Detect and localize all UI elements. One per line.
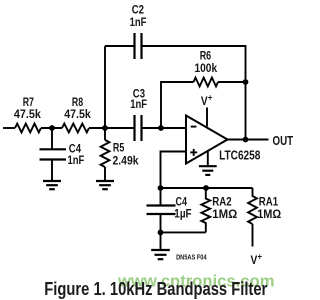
svg-text:C4: C4 [69, 144, 82, 156]
resistor RA2 [201, 188, 210, 232]
ground under C4 [43, 180, 61, 182]
svg-text:R8: R8 [72, 97, 84, 109]
svg-text:47.5k: 47.5k [64, 109, 91, 121]
wire node1 down to C4 [51, 128, 53, 149]
wire bias to C4 top [160, 188, 162, 206]
capacitor C4 1uF [147, 204, 176, 206]
node output junction [243, 137, 249, 143]
svg-text:47.5k: 47.5k [14, 109, 42, 121]
node bias dot left [158, 185, 164, 191]
wire R8 to C3 [89, 127, 134, 129]
wire C4 bottom [160, 214, 162, 232]
svg-text:RA1: RA1 [259, 197, 279, 209]
svg-text:1MΩ: 1MΩ [212, 209, 237, 221]
wire down to ground [160, 232, 162, 249]
wire R7 to R8 [41, 127, 62, 129]
svg-text:1nF: 1nF [130, 17, 147, 29]
op-amp plus sign [190, 151, 197, 153]
wire non-inverting input to bias rail [161, 152, 187, 189]
wire C3 to op-amp inverting input [142, 127, 187, 129]
svg-text:Figure 1. 10kHz Bandpass Filte: Figure 1. 10kHz Bandpass Filter [44, 278, 267, 299]
node junction R6-output [243, 79, 249, 85]
ground under op-amp [207, 151, 209, 165]
svg-text:OUT: OUT [273, 133, 294, 148]
node junction dot 3 feedback tap [158, 125, 164, 131]
wire node2 down to R5 [104, 128, 106, 140]
svg-text:R7: R7 [23, 97, 34, 109]
resistor R7 [15, 124, 41, 133]
resistor R5 [101, 140, 110, 167]
svg-text:1MΩ: 1MΩ [257, 209, 281, 221]
node junction dot 2 [102, 125, 108, 131]
svg-text:R5: R5 [113, 142, 125, 154]
svg-text:C2: C2 [132, 5, 144, 17]
capacitor C2 [133, 33, 135, 59]
op-amp minus sign [191, 126, 197, 128]
node bias dot RA2 [203, 185, 209, 191]
svg-text:100k: 100k [195, 63, 218, 75]
svg-text:+: + [258, 252, 263, 262]
node junction dot 1 [49, 125, 55, 131]
wire op-amp output [228, 139, 269, 141]
svg-text:+: + [208, 92, 213, 102]
wire node2 up to C2 [104, 46, 106, 128]
op-amp U1 LTC6258 [186, 116, 228, 164]
capacitor C3 [133, 115, 135, 141]
resistor RA1 [248, 188, 257, 224]
svg-text:RA2: RA2 [212, 197, 231, 209]
svg-text:1nF: 1nF [68, 155, 85, 167]
wire C2 to output branch [142, 46, 246, 140]
wire bias rail [161, 187, 253, 189]
wire R6 to output node [218, 81, 246, 83]
svg-text:DN5AS F04: DN5AS F04 [176, 254, 207, 261]
svg-text:R6: R6 [200, 51, 212, 63]
svg-text:C4: C4 [176, 196, 188, 208]
wire bias bottom rail [161, 231, 206, 233]
wire input segment [3, 127, 15, 129]
svg-text:1nF: 1nF [130, 99, 147, 111]
svg-text:2.49k: 2.49k [113, 156, 140, 168]
wire to C2 left plate [105, 45, 134, 47]
resistor R6 [194, 78, 219, 87]
ground under R5 [96, 180, 114, 182]
V+ supply stub [206, 108, 208, 127]
svg-text:LTC6258: LTC6258 [219, 148, 260, 163]
ground bias network [151, 249, 170, 251]
svg-text:1µF: 1µF [174, 209, 191, 221]
node bias ground dot [158, 230, 164, 236]
wire R5 to ground [104, 167, 106, 180]
wire R6 feedback rail [161, 82, 194, 128]
wire C4 to ground [51, 160, 53, 181]
wire RA1 to V+ [252, 224, 254, 247]
resistor R8 [62, 124, 89, 133]
capacitor C4 1nF [40, 148, 67, 150]
